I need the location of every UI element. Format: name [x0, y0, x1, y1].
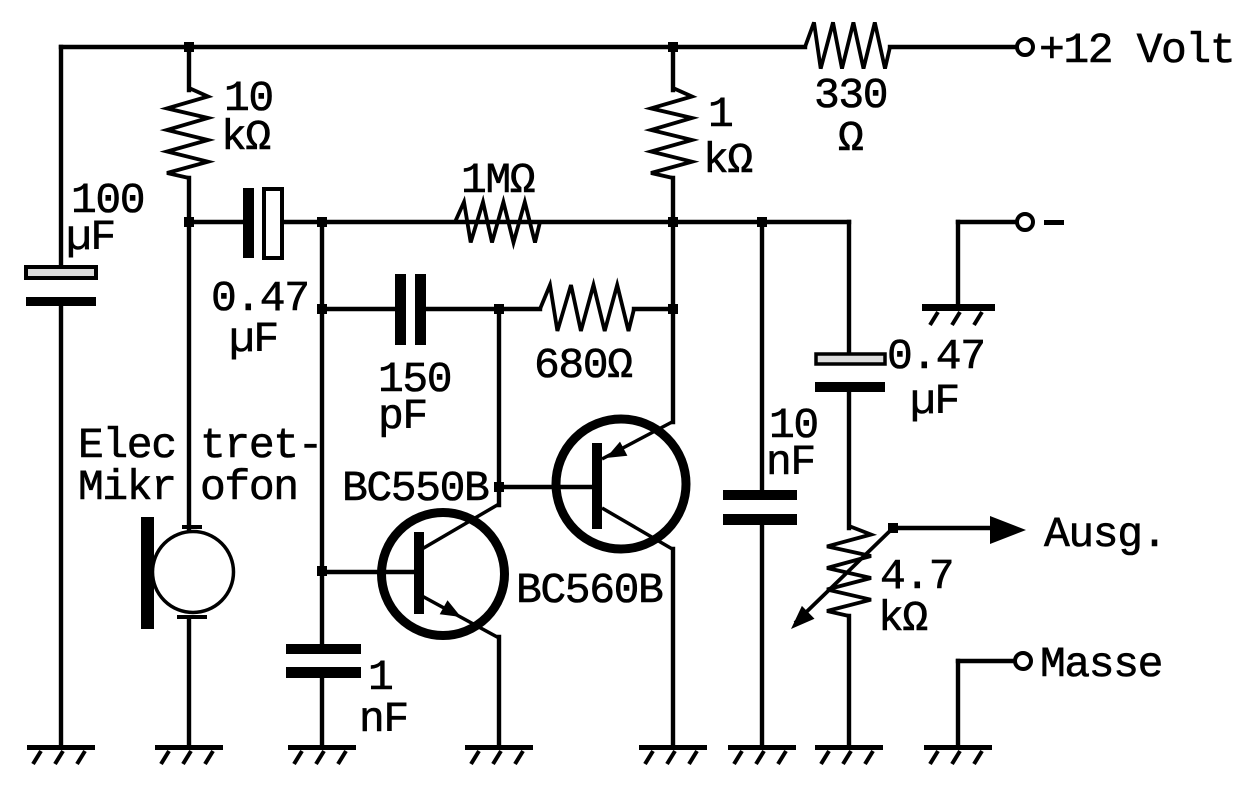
- svg-text:Ausg.: Ausg.: [1044, 510, 1166, 559]
- svg-text:kΩ: kΩ: [878, 594, 927, 643]
- wire Q1 collector vertical: [497, 309, 501, 505]
- wire Ausg tap: [893, 526, 989, 530]
- terminal +12V circle: [1017, 39, 1033, 55]
- wire top rail right: [890, 45, 1015, 49]
- wire minus branch vertical: [956, 222, 960, 304]
- wire mic to ground: [187, 618, 191, 747]
- capacitor C5 0.47uF plate solid: [815, 382, 885, 392]
- resistor R3 1k: [651, 88, 692, 178]
- ground bottom 3: [288, 745, 356, 764]
- resistor R1 10k: [167, 88, 208, 178]
- ground bottom 6: [728, 745, 796, 764]
- svg-text:kΩ: kΩ: [703, 136, 752, 185]
- wire top rail left: [61, 45, 805, 49]
- terminal minus circle: [1017, 214, 1033, 230]
- node junction B feedback: [184, 217, 194, 227]
- node junction C mid: [317, 304, 327, 314]
- wire 10nF bottom: [760, 525, 764, 747]
- wire 10k bottom: [187, 178, 191, 222]
- capacitor C6 10nF plate top: [723, 490, 797, 500]
- capacitor C6 10nF plate bottom: [723, 514, 797, 525]
- node junction E mid: [668, 304, 678, 314]
- wire 150pF left: [322, 307, 395, 311]
- wire feedback rail seg2: [282, 220, 849, 224]
- capacitor C3 150pF plate right: [415, 274, 426, 345]
- wire 1k bottom: [671, 178, 675, 309]
- svg-text:330: 330: [814, 71, 887, 120]
- wire Q1 emitter vertical: [497, 637, 501, 747]
- wire pot to ground: [847, 616, 851, 747]
- svg-text:+12 Volt: +12 Volt: [1039, 26, 1234, 75]
- node junction E feedback: [668, 217, 678, 227]
- svg-text:pF: pF: [378, 392, 427, 441]
- wire minus branch horizontal: [958, 220, 1014, 224]
- wire 1k top: [671, 47, 675, 90]
- wire feedback rail seg1: [189, 220, 243, 224]
- svg-text:Ω: Ω: [838, 114, 863, 163]
- resistor R4 330: [805, 22, 890, 68]
- wire Q2 base: [499, 485, 592, 489]
- capacitor C4 1nF plate bottom: [286, 667, 361, 678]
- node junction top rail E: [668, 42, 678, 52]
- svg-text:BC550B: BC550B: [342, 464, 489, 513]
- microphone diaphragm bar: [141, 517, 154, 629]
- svg-text:1: 1: [708, 90, 732, 139]
- svg-text:nF: nF: [359, 695, 408, 744]
- transistor Q1 BC550B circle: [382, 513, 505, 636]
- wire column C: [320, 222, 324, 644]
- wire Q2 emitter column: [671, 309, 675, 422]
- svg-text:µF: µF: [910, 377, 959, 426]
- wire 10k top: [187, 47, 191, 90]
- microphone bottom tick: [177, 615, 207, 619]
- capacitor C5 0.47uF plate outlined: [816, 354, 885, 364]
- transistor Q2 collector diagonal: [602, 508, 674, 550]
- transistor Q1 collector diagonal: [422, 504, 499, 549]
- svg-text:Masse: Masse: [1040, 640, 1162, 689]
- ground bottom 2: [155, 745, 223, 764]
- node junction Q2 base: [494, 482, 504, 492]
- node junction D mid: [494, 304, 504, 314]
- wire masse vertical: [956, 661, 960, 747]
- output arrow Ausg: [990, 516, 1026, 544]
- wire 10nF top: [760, 222, 764, 490]
- transistor Q1 emitter arrow: [440, 600, 461, 617]
- svg-text:µF: µF: [229, 315, 278, 364]
- svg-text:Mikr ofon: Mikr ofon: [78, 463, 298, 512]
- potentiometer wiper arrowhead: [791, 606, 815, 629]
- transistor Q1 base bar: [414, 532, 424, 614]
- wire mic column: [187, 222, 191, 529]
- transistor Q2 emitter arrow: [606, 442, 627, 458]
- capacitor C3 150pF plate left: [395, 274, 406, 345]
- svg-text:kΩ: kΩ: [221, 113, 270, 162]
- wire Q2 collector column: [671, 549, 675, 747]
- transistor Q2 base bar: [592, 443, 602, 529]
- wire C5 top: [847, 222, 851, 354]
- resistor R5 680: [540, 285, 634, 331]
- svg-text:BC560B: BC560B: [516, 566, 663, 615]
- node junction Q1 base: [317, 566, 327, 576]
- svg-text:µF: µF: [66, 213, 115, 262]
- capacitor C1 100uF plate solid: [26, 297, 96, 306]
- terminal minus dash: [1044, 220, 1064, 225]
- ground bottom 8: [924, 745, 992, 764]
- capacitor C2 0.47uF plate solid: [243, 188, 254, 258]
- ground bottom 4: [465, 745, 533, 764]
- wire Q1 base: [322, 570, 414, 574]
- ground mid right: [922, 304, 995, 325]
- ground bottom 5: [639, 745, 707, 764]
- svg-text:1MΩ: 1MΩ: [461, 156, 535, 205]
- wire column C to ground: [320, 678, 324, 747]
- wire 150pF right: [426, 307, 540, 311]
- wire C5 to pot: [847, 392, 851, 528]
- svg-text:nF: nF: [766, 438, 815, 487]
- microphone top tick: [182, 525, 202, 529]
- resistor R2 1M: [455, 202, 540, 243]
- node junction F feedback: [757, 217, 767, 227]
- ground bottom 1: [27, 745, 95, 764]
- potentiometer R6 4.7k body: [827, 526, 871, 616]
- capacitor C4 1nF plate top: [286, 644, 361, 654]
- capacitor C1 100uF plate outlined: [26, 267, 96, 278]
- node junction top rail B: [184, 42, 194, 52]
- microphone capsule circle: [153, 532, 234, 613]
- capacitor C2 0.47uF plate outlined: [264, 189, 282, 258]
- potentiometer R6 wiper line: [795, 528, 893, 623]
- svg-text:680Ω: 680Ω: [534, 341, 632, 390]
- transistor Q2 emitter diagonal: [602, 421, 674, 459]
- wire masse horizontal: [958, 659, 1012, 663]
- wire left rail upper: [59, 47, 63, 267]
- terminal masse circle: [1015, 653, 1031, 669]
- wire left rail lower: [59, 306, 63, 747]
- ground symbols: [27, 304, 995, 764]
- node junction wiper tap: [888, 523, 898, 533]
- node junction C feedback: [317, 217, 327, 227]
- transistor Q1 emitter diagonal: [422, 596, 499, 638]
- svg-text:0.47: 0.47: [887, 332, 985, 381]
- transistor Q2 BC560B circle: [556, 419, 686, 549]
- ground bottom 7: [815, 745, 883, 764]
- wire 680 right: [634, 307, 673, 311]
